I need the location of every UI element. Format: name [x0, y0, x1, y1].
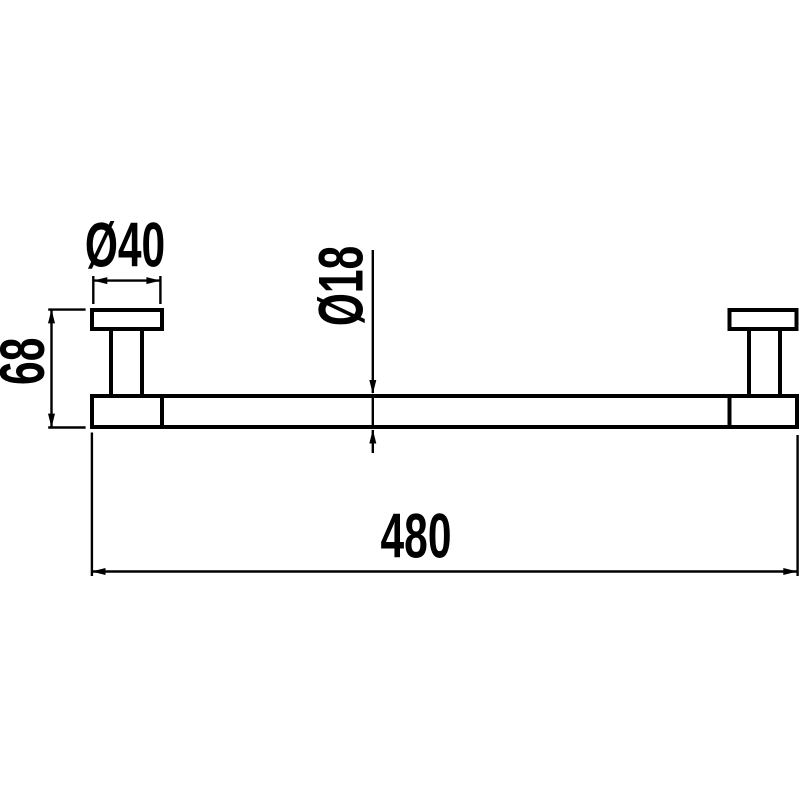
dim Ø18 leader line upper — [372, 250, 374, 393]
arrowhead 480 right — [783, 568, 797, 575]
bar body — [92, 396, 797, 427]
right mount footprint line on bar — [728, 394, 732, 429]
dim Ø40 extension line left — [92, 276, 94, 304]
dim Ø18 leader line lower — [372, 430, 374, 453]
right mount post right line — [778, 331, 782, 394]
right mount post left line — [747, 331, 751, 394]
dim Ø40 extension line right — [159, 276, 161, 304]
svg-text:68: 68 — [0, 338, 58, 385]
left mount flange — [92, 310, 162, 329]
arrowhead 480 left — [92, 568, 106, 575]
arrowhead Ø40 right — [146, 277, 160, 284]
svg-text:Ø40: Ø40 — [85, 210, 165, 280]
left mount post left line — [109, 331, 113, 394]
arrowhead Ø18 down (to bar top) — [369, 380, 376, 394]
dim Ø18 line through bar — [372, 396, 374, 427]
svg-text:480: 480 — [381, 501, 452, 571]
dim 480 extension line left — [91, 433, 93, 577]
dim Ø40 dimension line — [93, 279, 160, 281]
svg-text:Ø18: Ø18 — [306, 246, 376, 326]
right mount flange — [730, 310, 797, 329]
dim 68 extension line bottom — [48, 426, 85, 428]
left mount post right line — [140, 331, 144, 394]
left mount footprint line on bar — [160, 394, 164, 429]
arrowhead Ø18 up (to bar bottom) — [369, 430, 376, 444]
arrowhead Ø40 left — [93, 277, 107, 284]
arrowhead 68 top — [48, 309, 55, 323]
dim 480 extension line right — [796, 435, 798, 576]
dim 68 dimension line — [50, 309, 52, 427]
dim 68 extension line top — [48, 308, 85, 310]
arrowhead 68 bottom — [48, 414, 55, 428]
dim 480 dimension line — [92, 570, 798, 572]
